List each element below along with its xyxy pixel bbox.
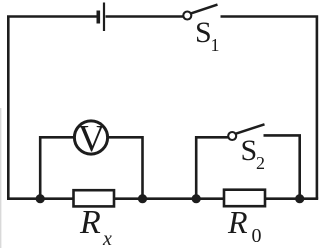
svg-text:R: R	[227, 204, 248, 240]
node junction	[295, 194, 304, 203]
switch S1	[183, 5, 217, 20]
wire	[40, 137, 74, 198]
voltmeter V	[74, 121, 107, 154]
svg-text:S: S	[195, 16, 212, 49]
wire	[106, 15, 184, 18]
battery B1	[98, 3, 104, 32]
wire	[264, 135, 300, 198]
svg-text:x: x	[102, 228, 112, 248]
svg-text:0: 0	[252, 225, 262, 247]
svg-text:2: 2	[256, 153, 265, 173]
svg-text:S: S	[241, 134, 258, 167]
wire	[196, 137, 228, 198]
wire	[221, 17, 317, 199]
resistor Rx	[74, 190, 115, 206]
wire	[8, 17, 97, 199]
node junction	[192, 194, 201, 203]
svg-text:V: V	[78, 118, 106, 160]
switch S2	[228, 124, 264, 140]
svg-text:1: 1	[211, 35, 220, 55]
wire	[265, 197, 318, 200]
wire	[108, 137, 143, 198]
scan artifact left edge	[0, 108, 1, 248]
node junction	[138, 194, 147, 203]
wire	[114, 197, 224, 200]
wire	[7, 197, 74, 200]
node junction	[36, 194, 45, 203]
resistor R0	[224, 190, 265, 207]
svg-text:R: R	[79, 204, 101, 241]
